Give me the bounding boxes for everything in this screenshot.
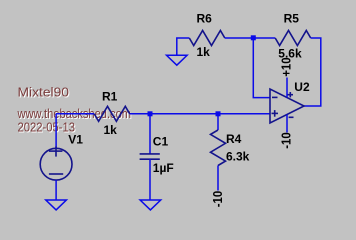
svg-text:U2: U2 <box>294 80 310 94</box>
junction (R4 node) <box>216 111 221 116</box>
wire: main signal wire V1/R1/C1/R4 to non-inverting input <box>56 113 94 115</box>
comment text Mixtel90 <box>18 85 71 101</box>
svg-text:R5: R5 <box>284 12 300 26</box>
junction (C1 node) <box>148 111 153 116</box>
svg-text:1k: 1k <box>197 45 211 59</box>
junction (feedback node) <box>251 35 256 40</box>
svg-text:C1: C1 <box>153 135 169 149</box>
svg-text:R1: R1 <box>102 90 118 104</box>
svg-text:R4: R4 <box>226 132 242 146</box>
wire: R1 to non-inverting input <box>130 113 270 115</box>
resistor R1 <box>94 106 130 121</box>
ground (below C1) <box>140 200 161 210</box>
wire: R6 to junction to R5 <box>225 37 275 39</box>
comment text www.thebackshed.com <box>17 106 132 122</box>
wire: V1 bottom lead <box>55 180 57 200</box>
capacitor C1 <box>140 154 160 159</box>
ground (left of R6) <box>167 55 188 65</box>
wire: R6 left lead to ground <box>177 38 190 55</box>
resistor R5 <box>275 31 311 46</box>
svg-text:V1: V1 <box>68 133 83 147</box>
svg-text:1k: 1k <box>104 123 118 137</box>
comment text 2022-05-13 <box>18 120 77 136</box>
ground (below V1) <box>46 200 67 210</box>
wire: R4 top lead <box>217 114 219 130</box>
wire: C1 bottom lead <box>149 159 151 200</box>
svg-text:-10: -10 <box>279 132 294 149</box>
wire: junction down to inverting input <box>253 38 270 98</box>
voltage source V1 <box>40 147 72 181</box>
wire: positive supply pin <box>286 78 288 98</box>
wire: negative supply pin <box>286 115 288 133</box>
svg-text:R6: R6 <box>197 11 213 25</box>
wire: V1 top lead <box>55 114 57 149</box>
svg-text:+10: +10 <box>279 57 294 76</box>
wire: R4 bottom lead <box>217 166 219 191</box>
wire: C1 top lead <box>149 114 151 154</box>
svg-text:-10: -10 <box>210 191 225 208</box>
svg-text:1µF: 1µF <box>153 161 174 175</box>
resistor R4 <box>211 130 226 166</box>
resistor R6 <box>189 31 225 46</box>
svg-text:2022-05-13: 2022-05-13 <box>18 120 76 135</box>
svg-text:6.3k: 6.3k <box>226 149 250 163</box>
wire: R5 right lead down to op-amp output <box>304 38 321 106</box>
op-amp U2 <box>270 89 304 123</box>
svg-text:Mixtel90: Mixtel90 <box>18 85 70 100</box>
